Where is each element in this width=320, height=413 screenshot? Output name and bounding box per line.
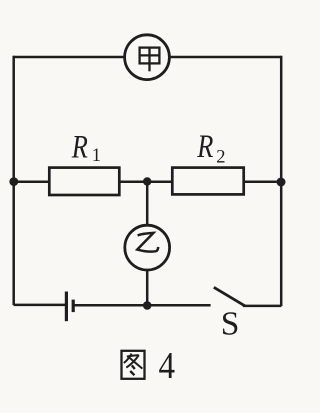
svg-text:R: R [71, 129, 88, 165]
svg-text:1: 1 [92, 146, 101, 166]
svg-text:S: S [221, 306, 240, 343]
svg-text:4: 4 [159, 344, 176, 387]
svg-text:2: 2 [216, 147, 225, 167]
svg-text:R: R [196, 128, 213, 164]
